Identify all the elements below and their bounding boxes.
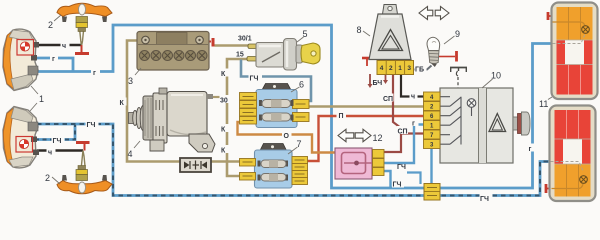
front lamp 1 (upper left)	[3, 29, 39, 90]
wire battery plus to ignition 30/1	[204, 41, 211, 43]
wire small blue elbow near connector	[407, 173, 421, 185]
wire switch 10 tab 3 down to connector	[430, 149, 432, 186]
wire Г stub from upper lamp middle tab	[35, 58, 73, 71]
fuse box 7	[240, 144, 308, 189]
terminal red T at bottom repeater junction	[84, 144, 86, 151]
svg-text:2: 2	[389, 65, 393, 72]
side repeater 2 (bottom, mirrored)	[57, 166, 112, 194]
label 5 ignition leader	[297, 37, 304, 42]
svg-text:К: К	[221, 148, 226, 155]
svg-text:3: 3	[128, 76, 133, 86]
wire ч (black) upper lamp to side repeater junction	[37, 44, 82, 46]
label 9 lamp leader	[444, 36, 455, 44]
svg-text:8: 8	[357, 25, 362, 35]
wire ГЧ from ignition switch down to fuse box 6 right upper tab	[241, 60, 311, 102]
svg-text:О: О	[284, 133, 290, 140]
svg-text:11: 11	[539, 99, 548, 109]
connector block on bottom runs	[424, 184, 440, 201]
svg-text:10: 10	[491, 71, 501, 81]
label 1 shared by front lamps, leaders	[30, 86, 38, 111]
wire Г flasher 12 middle tab up to switch 10 tab 1	[384, 125, 424, 164]
svg-text:ч: ч	[48, 150, 52, 157]
label ч relay wire	[410, 92, 418, 100]
wire ГЧ (blue/black dashed) front-left lower lamp, bottom run, to rear lower lamp	[37, 124, 550, 196]
svg-text:ГЧ: ГЧ	[393, 182, 402, 189]
svg-text:г: г	[412, 121, 415, 128]
terminal red T at rear lower lamp	[545, 184, 548, 193]
svg-text:3: 3	[407, 65, 411, 72]
side repeater 2 (top)	[57, 3, 112, 31]
label К (middle)	[220, 124, 229, 132]
svg-text:г: г	[93, 70, 96, 77]
svg-text:ГЧ: ГЧ	[53, 138, 62, 145]
switch 10 button	[513, 117, 518, 130]
label СП relay	[383, 94, 394, 102]
wire bottom repeater lead up to junction	[81, 151, 85, 167]
label ч lower	[47, 147, 56, 155]
flasher relay 12	[335, 148, 384, 179]
svg-text:ГЧ: ГЧ	[87, 122, 96, 129]
svg-text:ГЧ: ГЧ	[250, 76, 259, 83]
svg-text:БЧ: БЧ	[373, 80, 383, 87]
label 2 lower repeater	[52, 177, 60, 184]
terminal red T at battery plus	[212, 38, 215, 47]
label О orange wire	[282, 131, 292, 140]
svg-text:СП: СП	[398, 129, 408, 136]
label 3 battery leader	[135, 68, 141, 75]
wire К fuse box 6 to switch 10 tab 2	[309, 105, 424, 107]
label 10 switch leader	[482, 79, 493, 88]
svg-text:6: 6	[299, 80, 304, 90]
svg-text:30/1: 30/1	[238, 36, 252, 43]
wire Г (blue) front-left upper lamp to top run, down right side to rear upper lamp	[37, 25, 552, 188]
terminal red T right of lamp 9	[455, 51, 458, 62]
svg-text:СП: СП	[383, 96, 393, 103]
turn-signal bulb (checkered) with red outline box, lower lamp	[16, 137, 33, 153]
svg-text:П: П	[339, 113, 344, 120]
wire К / 30 vertical: ignition 15 pin, generator 30, to fuse box 7 lower tab	[227, 59, 248, 176]
wire БЧ stub with arrow below relay red terminal	[369, 74, 371, 85]
svg-text:1: 1	[398, 65, 402, 72]
label ГЧ above Г run	[392, 180, 404, 188]
svg-text:5: 5	[303, 29, 308, 39]
wire ГЧ stub from lower lamp middle tab	[35, 125, 75, 140]
generator 4	[129, 88, 216, 152]
control lamp 9	[427, 37, 440, 67]
label 8 relay leader	[363, 31, 370, 36]
label 11 rear lamps leader	[548, 97, 552, 100]
label К left vertical	[119, 98, 127, 106]
label 4 generator leader	[134, 141, 140, 148]
rear lamp 11 (lower)	[550, 106, 596, 202]
label г right vertical	[527, 144, 536, 152]
terminal red T at rear upper lamp	[547, 12, 550, 20]
hazard switch 10	[424, 88, 531, 163]
wire СП (maroon) relay tab 2 down to switch 10 tab 7 and flasher 12 top tab	[384, 75, 401, 152]
wire ч (black) relay tab 1 to switch 10 tab 4	[401, 75, 424, 97]
wire К battery minus down left side to diode block and fuse box 7	[127, 41, 180, 162]
svg-text:12: 12	[373, 133, 383, 143]
svg-text:ч: ч	[411, 94, 415, 101]
svg-text:7: 7	[297, 139, 302, 149]
ignition switch 5	[247, 39, 320, 71]
label СП second	[397, 126, 408, 134]
svg-text:30: 30	[220, 98, 228, 105]
rear lamp 11 (upper)	[552, 3, 598, 100]
svg-text:ч: ч	[62, 43, 66, 50]
svg-text:4: 4	[380, 65, 384, 72]
svg-text:ГЧ: ГЧ	[397, 164, 406, 171]
label К on ignition/generator vertical (top)	[220, 69, 229, 77]
wire repeater-2-top lead down to junction	[80, 31, 84, 46]
label 6 fuse box leader	[291, 87, 300, 92]
wire БЧ stub 2 with arrow below relay tab 4	[385, 75, 387, 81]
label ч upper	[61, 41, 70, 49]
terminal red T at top repeater junction	[81, 45, 83, 53]
wire П (red) fuse box 7 upper right tab up and right to switch 10 tab 6	[307, 116, 424, 161]
turn-signal bulb (checkered) with red outline box, upper lamp	[17, 40, 34, 56]
front lamp 1 (lower left, mirrored)	[3, 107, 39, 168]
wire lamp 9 side contact to red terminal	[439, 56, 455, 58]
label П red wire	[337, 111, 347, 120]
svg-text:4: 4	[128, 149, 133, 159]
svg-text:г: г	[52, 56, 55, 63]
label ГЧ bottom run	[480, 194, 493, 203]
svg-text:9: 9	[455, 29, 460, 39]
label 7 fuse box leader	[288, 147, 298, 154]
label 30 generator terminal	[220, 95, 233, 103]
svg-text:К: К	[221, 71, 226, 78]
wire ГЧ flasher 12 bottom tab down to Г run	[384, 171, 391, 188]
svg-text:ГЧ: ГЧ	[480, 196, 489, 203]
double arrow symbol near flasher 12	[338, 129, 371, 141]
svg-text:15: 15	[236, 52, 244, 59]
relay 8	[369, 5, 414, 75]
label ГЧ lower stub	[52, 136, 65, 145]
label К (lower)	[220, 145, 229, 153]
svg-text:г: г	[529, 146, 532, 153]
svg-text:2: 2	[45, 173, 50, 183]
battery 3	[137, 32, 209, 71]
svg-text:К: К	[120, 100, 125, 107]
label ГБ	[415, 64, 427, 72]
svg-text:К: К	[221, 127, 226, 134]
label 2 upper repeater	[54, 15, 61, 21]
terminal red T left of relay connector	[362, 57, 373, 60]
svg-text:1: 1	[39, 94, 44, 104]
label г stub upper	[50, 54, 58, 62]
ground symbol above switch 10	[450, 68, 467, 97]
label г long run	[91, 68, 100, 76]
fuse box 6	[240, 84, 310, 128]
double arrow symbol near relay 8	[419, 7, 449, 20]
wire ч (black) lower lamp to bottom repeater junction	[37, 149, 83, 151]
label ГЧ ignition wire	[249, 73, 263, 82]
svg-text:2: 2	[48, 20, 53, 30]
label ГЧ lower lamp run	[86, 120, 99, 129]
label г to tab 1	[411, 119, 419, 127]
wire stub generator B+ stud to K vertical	[212, 96, 227, 98]
connector/diode block under generator	[180, 158, 211, 172]
wire О (orange) fuse box 6 left lower tab to flasher 12	[238, 122, 337, 153]
svg-text:ГБ: ГБ	[415, 67, 424, 74]
wire ГБ relay tab 3 to control lamp 9	[414, 66, 432, 70]
